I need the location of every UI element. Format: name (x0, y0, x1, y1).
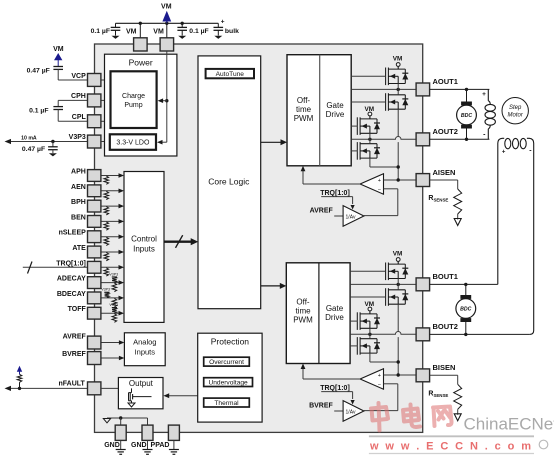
svg-text:VM: VM (393, 251, 403, 258)
wire AOUT2 to winding (430, 138, 490, 140)
wire nFAULT to output block (101, 387, 132, 389)
block AutoTune (206, 69, 254, 78)
wire rail to VM pad2 (166, 23, 168, 38)
ground GND1 external (120, 440, 122, 449)
transistor A high-side 2 (360, 118, 377, 120)
pad AOUT1 (416, 83, 430, 96)
svg-text:0.47 µF: 0.47 µF (22, 146, 45, 153)
svg-text:+: + (221, 19, 225, 26)
block Off-time PWM A (287, 55, 351, 166)
svg-text:Analog: Analog (133, 337, 156, 346)
resistor RSENSE A (430, 179, 458, 181)
wire output BOUT1 (350, 283, 416, 285)
transistor output open-drain (131, 388, 133, 392)
svg-text:CPL: CPL (72, 114, 87, 121)
op-amp gain 1/Av B (343, 401, 364, 422)
svg-text:ATE: ATE (72, 245, 86, 252)
svg-text:BPH: BPH (71, 199, 86, 206)
svg-text:+: + (502, 150, 506, 156)
block Undervoltage (204, 378, 253, 387)
block Core Logic (198, 56, 261, 309)
VM supply arrow top (162, 11, 171, 22)
capacitor bulk (217, 23, 219, 27)
svg-text:0.1 µF: 0.1 µF (29, 108, 48, 115)
wire B sense vertical (397, 304, 399, 331)
wire gate B3 (350, 320, 357, 322)
wire VM top rail (116, 22, 219, 24)
svg-text:BISEN: BISEN (433, 363, 456, 372)
watermark lines (369, 435, 534, 437)
wire output AOUT1 (351, 88, 416, 90)
capacitor 0.47 uF VCP (53, 66, 63, 68)
wire rail to VM pad1 (139, 23, 141, 38)
svg-text:VM: VM (53, 46, 64, 53)
wire BOUT2 to winding (430, 333, 530, 335)
node AOUT2 junction (368, 138, 371, 141)
transistor B high-side 1 (388, 263, 405, 265)
wire BVREF to gain (334, 410, 343, 412)
block Control Inputs (124, 172, 164, 323)
wire A comparator minus input (384, 188, 398, 190)
wire Protection to Output (165, 395, 198, 397)
wire gate B4 (350, 345, 357, 347)
wire A comparator plus input (384, 179, 417, 181)
svg-text:VCP: VCP (71, 73, 86, 80)
wire output BOUT2 with hop (350, 332, 416, 335)
watermark (371, 403, 452, 431)
svg-text:VM: VM (393, 56, 403, 63)
svg-text:+: + (378, 178, 381, 184)
svg-text:ADECAY: ADECAY (57, 276, 86, 283)
node AOUT1 junction (397, 88, 400, 91)
transistor A low-side 1 (388, 94, 405, 96)
op-amp gain 1/Av A (343, 206, 364, 227)
wire gate B1 (350, 270, 386, 272)
svg-text:Inputs: Inputs (133, 245, 155, 254)
svg-text:Gate: Gate (326, 101, 344, 110)
bus Control to Core Logic (164, 240, 192, 242)
svg-text:PPAD: PPAD (151, 442, 170, 449)
wire B comparator minus input (384, 383, 398, 385)
svg-text:10 mA: 10 mA (21, 136, 37, 142)
ground output transistor (128, 403, 135, 407)
wire Core Logic to Off-time PWM A (261, 141, 282, 143)
svg-text:BOUT1: BOUT1 (433, 272, 458, 281)
svg-text:w w w . E C C N . c o m: w w w . E C C N . c o m (369, 441, 533, 453)
svg-text:0.47 µF: 0.47 µF (27, 68, 50, 75)
pad AOUT2 (416, 133, 430, 146)
node VM charge pump junction (165, 99, 168, 102)
wire TRQ to gain B (321, 391, 352, 393)
node B sense to comparator (397, 373, 400, 376)
svg-text:Control: Control (131, 235, 157, 244)
svg-text:BVREF: BVREF (309, 403, 333, 410)
node A sense to comparator (397, 178, 400, 181)
capacitor 0.1 uF top-left (115, 23, 117, 27)
transistor B low-side 2 (360, 338, 377, 340)
wire Core Logic to Off-time PWM B (261, 285, 281, 287)
wire internal ground (107, 417, 148, 419)
svg-text:BDC: BDC (461, 113, 472, 119)
wire output AOUT2 with hop (351, 137, 416, 140)
wire VM internal (166, 51, 168, 142)
wire B comparator output (303, 378, 360, 380)
block Off-time PWM B (286, 263, 350, 364)
node BOUT1 junction (397, 283, 400, 286)
motor BDC A (465, 88, 468, 91)
svg-text:+: + (482, 91, 486, 98)
block Protection (198, 333, 262, 422)
svg-text:Core Logic: Core Logic (208, 176, 250, 186)
pad GND 2 (142, 425, 153, 440)
svg-text:AVREF: AVREF (310, 208, 334, 215)
svg-text:AOUT2: AOUT2 (433, 127, 458, 136)
svg-text:V3P3: V3P3 (69, 134, 86, 141)
svg-text:BEN: BEN (71, 214, 86, 221)
wire CPL (57, 110, 59, 122)
node VM arrow junction (165, 22, 168, 25)
svg-text:Off-: Off- (296, 298, 310, 307)
block Analog Inputs (124, 333, 165, 366)
wire gate A1 (351, 75, 386, 77)
capacitor 0.1 uF CPH-CPL (53, 106, 63, 108)
wire gate A2 (351, 101, 386, 103)
svg-text:AOUT1: AOUT1 (433, 77, 458, 86)
resistor nFAULT pullup (18, 387, 21, 390)
svg-text:AEN: AEN (71, 184, 86, 191)
svg-text:0.1 µF: 0.1 µF (91, 28, 110, 35)
svg-text:V3P3: V3P3 (101, 288, 110, 292)
node ground junction (119, 416, 122, 419)
svg-text:Drive: Drive (325, 313, 344, 322)
svg-text:BDC: BDC (460, 307, 471, 313)
svg-text:BOUT2: BOUT2 (433, 322, 458, 331)
node VM pad1 junction (139, 22, 142, 25)
ground V3P3 cap (49, 153, 57, 156)
capacitor 0.47 uF V3P3 (52, 142, 54, 147)
transistor A low-side 2 (360, 143, 377, 145)
wire B comparator plus input (384, 374, 417, 376)
node BOUT2 junction (368, 333, 371, 336)
comparator B (360, 369, 383, 390)
ground internal symbol (103, 419, 110, 423)
svg-text:Output: Output (129, 379, 154, 388)
svg-text:Inputs: Inputs (135, 347, 156, 356)
ground top-left cap (112, 36, 120, 39)
wire VM to LDO (160, 141, 167, 143)
svg-text:PWM: PWM (294, 114, 314, 123)
svg-text:3.3-V LDO: 3.3-V LDO (116, 140, 150, 147)
motor BDC B (464, 283, 467, 286)
resistor RSENSE B (430, 374, 458, 376)
svg-text:PWM: PWM (293, 316, 313, 325)
svg-text:−: − (378, 187, 381, 193)
pad PPAD (168, 425, 179, 440)
wire B low-side2 source (369, 353, 371, 362)
svg-text:VM: VM (153, 29, 164, 36)
svg-text:Charge: Charge (122, 93, 145, 100)
ground top-mid cap (178, 36, 186, 39)
wire A low-side2 source (369, 158, 371, 167)
transistor B high-side 2 (360, 313, 377, 315)
pad BISEN (416, 369, 430, 382)
block Charge Pump (111, 71, 157, 128)
svg-text:Overcurrent: Overcurrent (209, 359, 244, 366)
capacitor 0.1 uF top-mid (181, 22, 184, 25)
pad BOUT1 (416, 278, 430, 291)
pad BOUT2 (416, 328, 430, 341)
comparator A (360, 174, 383, 195)
step motor (502, 98, 528, 124)
svg-text:Power: Power (129, 57, 153, 67)
svg-text:TRQ[1:0]: TRQ[1:0] (56, 260, 86, 267)
transistor A high-side 1 (388, 68, 405, 70)
svg-text:V3P3: V3P3 (109, 303, 118, 307)
svg-text:VM: VM (126, 29, 137, 36)
wire A sense vertical (397, 109, 399, 136)
svg-text:BVREF: BVREF (62, 351, 86, 358)
wire BOUT1 to winding (430, 283, 498, 285)
svg-text:TOFF: TOFF (68, 306, 87, 313)
node B source join (397, 360, 400, 363)
svg-text:V3P3: V3P3 (109, 272, 118, 276)
wire VCP (57, 69, 59, 80)
svg-text:AISEN: AISEN (433, 168, 456, 177)
wire gate B2 (350, 296, 386, 298)
block Output (118, 378, 163, 409)
block Overcurrent (204, 357, 250, 366)
svg-text:+: + (378, 373, 381, 379)
svg-text:Step: Step (509, 105, 522, 111)
svg-text:TRQ[1:0]: TRQ[1:0] (320, 385, 350, 392)
svg-text:Drive: Drive (326, 110, 345, 119)
pad V3P3 (88, 135, 101, 148)
svg-text:nFAULT: nFAULT (58, 380, 85, 387)
wire A comparator output (303, 183, 360, 185)
svg-text:ChinaECNet: ChinaECNet (464, 415, 554, 434)
pad nFAULT (88, 382, 101, 395)
svg-text:Off-: Off- (297, 96, 311, 105)
svg-text:AutoTune: AutoTune (216, 71, 245, 78)
svg-text:VM: VM (161, 3, 172, 10)
svg-text:1/Av: 1/Av (346, 409, 356, 415)
wire VM to charge pump (160, 100, 167, 102)
wire TRQ to gain A (321, 196, 352, 198)
ground bulk cap (214, 36, 222, 39)
ground GND2 external (147, 440, 149, 449)
wire CPH (58, 99, 87, 101)
inductor winding A (487, 89, 489, 100)
pad AISEN (416, 174, 430, 187)
svg-text:time: time (295, 307, 311, 316)
wire gate A3 (351, 125, 357, 127)
block Thermal (204, 398, 250, 407)
svg-text:Protection: Protection (211, 337, 250, 347)
node A source join (397, 165, 400, 168)
inductor winding B loop (498, 138, 504, 284)
svg-text:Motor: Motor (508, 113, 524, 119)
svg-text:Pump: Pump (124, 102, 142, 109)
svg-text:nSLEEP: nSLEEP (59, 230, 87, 237)
pad GND 1 (115, 425, 126, 440)
wire V3P3 external (9, 141, 88, 143)
ground PPAD external (173, 440, 175, 449)
wire gate A4 (351, 150, 357, 152)
svg-text:APH: APH (71, 169, 86, 176)
chip body outline (95, 44, 423, 432)
wire AOUT1 to winding (430, 88, 490, 90)
transistor B low-side 1 (388, 289, 405, 291)
svg-text:Gate: Gate (326, 304, 344, 313)
node V3P3 cap junction (51, 140, 54, 143)
block Power (105, 54, 177, 156)
svg-text:Undervoltage: Undervoltage (208, 379, 248, 386)
svg-text:−: − (378, 382, 381, 388)
svg-text:Thermal: Thermal (214, 400, 239, 407)
svg-text:0.1 µF: 0.1 µF (189, 28, 208, 35)
svg-text:AVREF: AVREF (63, 334, 87, 341)
wire V3P3 to LDO (101, 141, 110, 143)
svg-text:bulk: bulk (225, 28, 239, 35)
svg-text:GND: GND (131, 442, 147, 449)
svg-text:GND: GND (104, 442, 120, 449)
wire AVREF to gain (334, 215, 343, 217)
block 3.3-V LDO (110, 134, 156, 150)
svg-text:1/Av: 1/Av (346, 214, 356, 220)
svg-text:TRQ[1:0]: TRQ[1:0] (320, 190, 350, 197)
svg-text:CPH: CPH (71, 93, 86, 100)
svg-text:time: time (296, 105, 312, 114)
svg-text:BDECAY: BDECAY (57, 291, 86, 298)
